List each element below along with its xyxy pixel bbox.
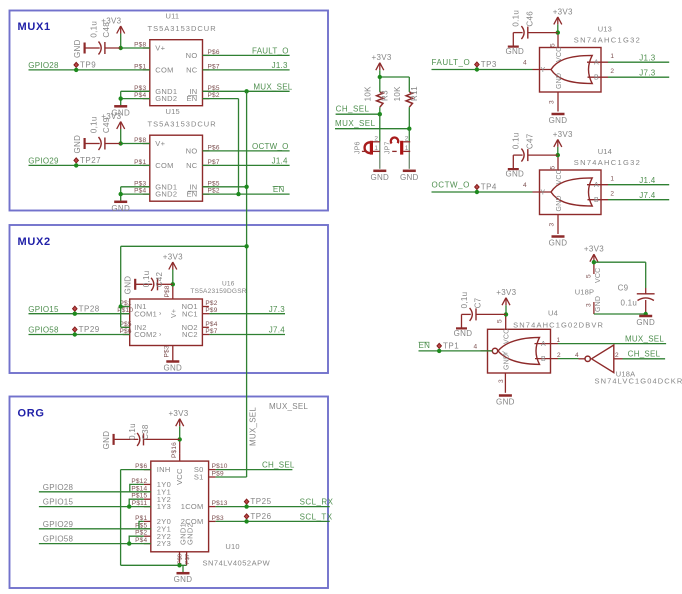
svg-text:GND: GND bbox=[505, 170, 524, 179]
wire MUX_SEL to JP7 bbox=[408, 129, 410, 142]
svg-text:0,1u: 0,1u bbox=[128, 423, 137, 440]
wire +3V3 to VCC (U4) bbox=[505, 305, 507, 315]
svg-text:FAULT_O: FAULT_O bbox=[252, 47, 289, 56]
net J1.4 wire bbox=[203, 164, 290, 166]
wire +3V3 to VCC (U14) bbox=[557, 147, 559, 156]
svg-text:3: 3 bbox=[549, 100, 556, 104]
svg-text:V+: V+ bbox=[155, 44, 165, 53]
svg-text:2: 2 bbox=[610, 68, 614, 75]
svg-text:SCL_TX: SCL_TX bbox=[300, 512, 333, 521]
net OCTW_O wire bbox=[432, 191, 533, 193]
svg-text:JP6: JP6 bbox=[354, 141, 361, 154]
svg-text:NO: NO bbox=[186, 147, 198, 156]
svg-text:MUX_SEL: MUX_SEL bbox=[625, 335, 664, 344]
IC U18P power pins bbox=[575, 262, 602, 314]
svg-text:4: 4 bbox=[523, 60, 527, 67]
svg-text:0,1u: 0,1u bbox=[142, 271, 151, 288]
testpoint TP9 bbox=[74, 61, 96, 73]
testpoint TP1 bbox=[437, 342, 459, 354]
junction VCC node (U10) bbox=[178, 437, 182, 441]
net GPIO15 wire (ORG) bbox=[39, 506, 151, 508]
svg-text:P$16: P$16 bbox=[171, 442, 178, 458]
svg-text:CH_SEL: CH_SEL bbox=[262, 460, 295, 469]
svg-text:A: A bbox=[594, 182, 599, 189]
svg-text:U11: U11 bbox=[166, 12, 180, 21]
net GPIO28 wire (ORG) bbox=[39, 491, 151, 493]
net GPIO15 wire bbox=[29, 313, 130, 315]
svg-text:GND: GND bbox=[111, 204, 130, 213]
svg-text:GND: GND bbox=[595, 296, 602, 312]
svg-text:1Y3: 1Y3 bbox=[157, 502, 171, 511]
svg-text:4: 4 bbox=[523, 182, 527, 189]
net CH_SEL wire (U18A in) bbox=[623, 358, 666, 360]
svg-text:C47: C47 bbox=[525, 133, 534, 149]
svg-text:0,1u: 0,1u bbox=[89, 21, 98, 38]
ground (U4) bbox=[496, 396, 515, 407]
pin GND (U4) bbox=[504, 373, 506, 393]
svg-text:GND: GND bbox=[370, 173, 389, 182]
junction VCC (U18P) bbox=[592, 260, 596, 264]
svg-text:V+: V+ bbox=[155, 139, 165, 148]
svg-text:R3: R3 bbox=[380, 90, 389, 101]
svg-text:MUX_SEL: MUX_SEL bbox=[335, 119, 376, 128]
wire +3V3 to V+ (U11) bbox=[120, 34, 122, 49]
svg-text:GPIO58: GPIO58 bbox=[28, 326, 59, 335]
svg-text:1: 1 bbox=[374, 145, 378, 152]
svg-text:JP7: JP7 bbox=[385, 141, 392, 154]
svg-text:B: B bbox=[541, 356, 546, 363]
svg-text:J7.3: J7.3 bbox=[269, 305, 285, 314]
supply +3V3 (U4) bbox=[496, 288, 516, 305]
pin B (U14) bbox=[588, 199, 609, 201]
wire R3 to CH_SEL bbox=[379, 82, 381, 92]
svg-text:+3V3: +3V3 bbox=[163, 253, 183, 262]
net J7.4 wire bbox=[608, 199, 669, 201]
svg-text:B: B bbox=[594, 75, 599, 82]
svg-text:U4: U4 bbox=[548, 309, 558, 318]
svg-text:GND: GND bbox=[556, 195, 563, 211]
svg-text:1COM: 1COM bbox=[181, 502, 204, 511]
svg-text:0.1u: 0.1u bbox=[621, 299, 638, 308]
svg-text:0.1u: 0.1u bbox=[512, 132, 521, 149]
svg-text:NO: NO bbox=[186, 51, 198, 60]
svg-text:5: 5 bbox=[586, 274, 593, 278]
pin VCC (U4) bbox=[505, 315, 507, 330]
svg-text:SN74LVC1G04DCKR: SN74LVC1G04DCKR bbox=[595, 377, 682, 386]
net MUX_SEL wire (U4 out) bbox=[558, 343, 666, 345]
pin B (U4) bbox=[535, 358, 558, 360]
net GPIO58 wire (ORG) bbox=[39, 543, 151, 545]
svg-text:+3V3: +3V3 bbox=[553, 7, 573, 16]
svg-text:TP4: TP4 bbox=[481, 183, 497, 192]
svg-text:GND: GND bbox=[174, 575, 193, 584]
svg-text:GPIO29: GPIO29 bbox=[43, 520, 74, 529]
junction MUX_SEL at U15 bbox=[244, 185, 248, 189]
testpoint TP25 bbox=[244, 497, 271, 509]
svg-text:›: › bbox=[159, 331, 162, 338]
svg-text:SN74AHC1G32: SN74AHC1G32 bbox=[574, 36, 641, 45]
svg-text:0,1u: 0,1u bbox=[460, 292, 469, 309]
junction CH_SEL/R3 bbox=[378, 112, 382, 116]
svg-text:GND: GND bbox=[102, 431, 111, 450]
junction R3 top bbox=[378, 75, 382, 79]
svg-text:›: › bbox=[159, 311, 162, 318]
testpoint TP4 bbox=[475, 183, 497, 195]
svg-text:3: 3 bbox=[498, 379, 505, 383]
ground (JP7) bbox=[400, 171, 419, 182]
svg-text:TP25: TP25 bbox=[250, 497, 271, 506]
pin VCC (U13) bbox=[557, 33, 559, 47]
ground (JP6) bbox=[370, 171, 389, 182]
net FAULT_O wire bbox=[432, 69, 533, 71]
junction V+ node (U15) bbox=[119, 141, 123, 145]
svg-text:MUX_SEL: MUX_SEL bbox=[249, 407, 258, 446]
wire R11 to MUX_SEL bbox=[408, 82, 410, 92]
svg-text:J7.4: J7.4 bbox=[269, 326, 285, 335]
svg-text:COM2: COM2 bbox=[134, 330, 157, 339]
OR gate shape (U14) bbox=[551, 178, 592, 206]
svg-text:TS5A23159DGSR: TS5A23159DGSR bbox=[190, 288, 246, 295]
svg-text:GND: GND bbox=[556, 73, 563, 89]
wire CH_SEL to JP6 bbox=[379, 114, 381, 142]
svg-text:U10: U10 bbox=[225, 542, 239, 551]
svg-text:MUX_SEL: MUX_SEL bbox=[253, 83, 292, 92]
wire net MUX_SEL vertical bbox=[246, 91, 248, 477]
svg-text:J7.3: J7.3 bbox=[639, 68, 655, 77]
wire +3V3 to R3/R11 bbox=[379, 70, 381, 81]
wire +3V3 to V+ (U15) bbox=[120, 129, 122, 144]
svg-text:P$7: P$7 bbox=[185, 554, 191, 564]
junction GND pins (U15) bbox=[119, 192, 123, 196]
IC U16 body bbox=[117, 281, 247, 358]
junction GPIO58/2Y3 bbox=[127, 541, 131, 545]
net FAULT_O wire bbox=[203, 54, 290, 56]
junction V+ node (U16) bbox=[171, 282, 175, 286]
svg-text:C48: C48 bbox=[102, 22, 111, 38]
junction GPIO15/1Y3 bbox=[127, 504, 131, 508]
svg-text:2Y3: 2Y3 bbox=[157, 539, 171, 548]
pin GND (U14) bbox=[557, 215, 559, 235]
capacitor C9 bbox=[618, 283, 655, 314]
svg-text:ORG: ORG bbox=[18, 407, 45, 419]
net SCL_TX wire bbox=[216, 520, 330, 522]
frame MUX2 bbox=[10, 225, 329, 373]
svg-text:+3V3: +3V3 bbox=[168, 409, 188, 418]
svg-text:U18P: U18P bbox=[575, 288, 595, 297]
svg-text:A: A bbox=[541, 341, 546, 348]
svg-text:R11: R11 bbox=[410, 86, 419, 101]
wire U16 GND pin bbox=[172, 354, 174, 362]
junction V+ node (U11) bbox=[119, 46, 123, 50]
svg-text:U14: U14 bbox=[598, 147, 612, 156]
svg-text:GND: GND bbox=[549, 116, 568, 125]
junction VCC node (U4) bbox=[504, 312, 508, 316]
svg-text:+3V3: +3V3 bbox=[584, 245, 604, 254]
capacitor C48 bbox=[73, 21, 121, 58]
svg-text:C49: C49 bbox=[102, 117, 111, 133]
wire INH to GND (U10) bbox=[121, 469, 151, 471]
net CH_SEL wire (S0) bbox=[216, 469, 293, 471]
ground (U14) bbox=[549, 237, 568, 248]
svg-text:C38: C38 bbox=[141, 424, 150, 440]
junction MUX_SEL at U11 bbox=[244, 89, 248, 93]
jumper JP6 bbox=[354, 135, 380, 154]
testpoint TP27 bbox=[74, 156, 101, 168]
svg-text:GND: GND bbox=[163, 364, 182, 373]
svg-text:TP26: TP26 bbox=[250, 512, 271, 521]
svg-text:GPIO58: GPIO58 bbox=[43, 535, 74, 544]
capacitor C46 bbox=[505, 10, 557, 56]
supply +3V3 (U15) bbox=[101, 112, 124, 129]
svg-text:TP1: TP1 bbox=[443, 342, 459, 351]
svg-text:CH_SEL: CH_SEL bbox=[628, 350, 661, 359]
pin VCC (U14) bbox=[557, 156, 559, 170]
testpoint TP26 bbox=[244, 512, 271, 524]
output bubble (U4) bbox=[492, 348, 497, 353]
svg-text:P$4: P$4 bbox=[205, 321, 217, 328]
jumper JP7 bbox=[385, 135, 411, 154]
supply +3V3 (U10) bbox=[168, 409, 188, 426]
wire MUX_SEL to S1 bbox=[216, 476, 247, 478]
svg-text:SN74LV4052APW: SN74LV4052APW bbox=[203, 559, 271, 568]
ground (U11) bbox=[111, 106, 130, 117]
IC U11 body bbox=[134, 12, 220, 106]
pin Y (U14) bbox=[533, 191, 552, 193]
net J1.3 wire bbox=[608, 61, 669, 63]
wire net EN (U15 EN) bbox=[203, 193, 290, 195]
svg-text:GND: GND bbox=[400, 173, 419, 182]
capacitor C42 bbox=[124, 271, 173, 295]
pin GND (U13) bbox=[557, 92, 559, 112]
junction EN at U15 bbox=[236, 192, 240, 196]
net J7.4 wire bbox=[209, 334, 285, 336]
svg-text:Y: Y bbox=[540, 67, 545, 74]
junction GND pins (U11) bbox=[119, 96, 123, 100]
svg-text:OCTW_O: OCTW_O bbox=[432, 180, 470, 189]
junction IN1 (U16) bbox=[119, 304, 123, 308]
svg-text:TP28: TP28 bbox=[79, 304, 100, 313]
svg-text:GND2: GND2 bbox=[186, 523, 195, 545]
wire +3V3 to VCC (U10) bbox=[179, 426, 181, 441]
svg-text:SN74AHC1G02DBVR: SN74AHC1G02DBVR bbox=[513, 320, 604, 329]
ground (U16) bbox=[163, 362, 182, 373]
svg-text:GPIO15: GPIO15 bbox=[28, 305, 59, 314]
svg-text:5: 5 bbox=[550, 43, 557, 47]
IC U4 body bbox=[488, 309, 605, 374]
svg-text:J7.4: J7.4 bbox=[639, 191, 655, 200]
svg-text:VCC: VCC bbox=[556, 169, 563, 184]
wire net EN (U11 EN down) bbox=[203, 98, 239, 100]
supply +3V3 (U14) bbox=[553, 130, 573, 147]
IC U15 body bbox=[134, 107, 220, 201]
junction MUX_SEL top wire bbox=[244, 244, 248, 248]
IC U18A inverter bbox=[575, 345, 682, 386]
frame MUX1 bbox=[10, 11, 329, 211]
svg-text:MUX_SEL: MUX_SEL bbox=[269, 402, 308, 411]
svg-text:VCC: VCC bbox=[175, 468, 184, 485]
wire +3V3 to VCC (U13) bbox=[557, 24, 559, 33]
svg-text:2: 2 bbox=[615, 352, 619, 359]
svg-text:MUX1: MUX1 bbox=[18, 21, 51, 33]
svg-text:GPIO28: GPIO28 bbox=[43, 483, 74, 492]
ground (U15) bbox=[111, 202, 130, 213]
svg-text:J1.3: J1.3 bbox=[639, 53, 655, 62]
supply +3V3 (U11) bbox=[101, 17, 124, 34]
svg-text:GND: GND bbox=[504, 354, 511, 370]
supply +3V3 (U16) bbox=[163, 253, 183, 270]
svg-text:P$8: P$8 bbox=[178, 554, 184, 564]
net J1.3 wire bbox=[203, 69, 290, 71]
svg-text:COM: COM bbox=[155, 161, 173, 170]
svg-text:FAULT_O: FAULT_O bbox=[432, 58, 471, 67]
svg-text:GPIO15: GPIO15 bbox=[43, 498, 74, 507]
testpoint TP3 bbox=[475, 60, 497, 72]
svg-text:B: B bbox=[594, 197, 599, 204]
svg-text:GND: GND bbox=[549, 239, 568, 248]
svg-text:0,1u: 0,1u bbox=[89, 116, 98, 133]
svg-text:C46: C46 bbox=[525, 11, 534, 27]
junction MUX_SEL/R11 bbox=[407, 127, 411, 131]
IC U14 body bbox=[540, 147, 642, 215]
wire VCC loop to C9 bbox=[594, 261, 646, 263]
wire +3V3 (U18P) bbox=[593, 261, 595, 262]
svg-text:GND: GND bbox=[73, 135, 82, 154]
svg-text:2: 2 bbox=[374, 135, 378, 142]
svg-text:3: 3 bbox=[549, 222, 556, 226]
svg-text:J1.4: J1.4 bbox=[639, 176, 655, 185]
net EN wire (U4) bbox=[419, 350, 493, 352]
svg-text:SN74AHC1G32: SN74AHC1G32 bbox=[574, 158, 641, 167]
junction GND1 pin (U10) bbox=[177, 563, 181, 567]
svg-text:5: 5 bbox=[550, 166, 557, 170]
svg-text:CH_SEL: CH_SEL bbox=[336, 105, 370, 114]
net OCTW_O wire bbox=[203, 150, 290, 152]
supply +3V3 (R3/R11) bbox=[372, 53, 392, 70]
svg-text:COM: COM bbox=[155, 66, 173, 75]
net GPIO29 wire bbox=[29, 164, 150, 166]
svg-text:GND: GND bbox=[124, 276, 133, 295]
wire GND1/GND2 (U15) bbox=[121, 186, 150, 188]
svg-text:INH: INH bbox=[157, 465, 171, 474]
svg-text:U15: U15 bbox=[166, 107, 180, 116]
wire +3V3 to U16 V+ bbox=[172, 270, 174, 287]
svg-text:+3V3: +3V3 bbox=[372, 53, 392, 62]
svg-text:VCC: VCC bbox=[556, 47, 563, 62]
pin Y (U13) bbox=[533, 69, 552, 71]
svg-text:P$3: P$3 bbox=[164, 345, 171, 357]
svg-text:2: 2 bbox=[405, 135, 409, 142]
ground (U10) bbox=[174, 573, 193, 584]
capacitor C49 bbox=[73, 116, 121, 153]
svg-text:3: 3 bbox=[586, 303, 593, 307]
resistor R11 10K bbox=[393, 86, 419, 107]
svg-text:P$2: P$2 bbox=[205, 300, 217, 307]
svg-text:NC1: NC1 bbox=[182, 309, 198, 318]
wire net MUX_SEL (U15 IN) bbox=[203, 186, 247, 188]
svg-text:+3V3: +3V3 bbox=[553, 130, 573, 139]
NOR gate shape (U4) bbox=[498, 337, 540, 364]
svg-text:C9: C9 bbox=[618, 283, 629, 292]
capacitor C7 bbox=[454, 292, 506, 338]
svg-text:1: 1 bbox=[405, 145, 409, 152]
pin A (U4) bbox=[535, 343, 559, 345]
capacitor C38 bbox=[102, 423, 180, 449]
net CH_SEL wire (pullup) bbox=[336, 113, 380, 115]
svg-text:NC: NC bbox=[186, 66, 198, 75]
wire U4.B to U18A out bbox=[558, 358, 579, 360]
svg-text:1: 1 bbox=[610, 53, 614, 60]
svg-text:+3V3: +3V3 bbox=[496, 288, 516, 297]
supply +3V3 (U13) bbox=[553, 7, 573, 24]
frame ORG bbox=[10, 397, 329, 589]
pin Y (U4) bbox=[481, 350, 493, 352]
svg-text:U13: U13 bbox=[598, 25, 612, 34]
net J7.3 wire bbox=[209, 313, 285, 315]
svg-text:J1.4: J1.4 bbox=[272, 157, 288, 166]
svg-text:V+: V+ bbox=[171, 309, 178, 318]
svg-text:VCC: VCC bbox=[504, 329, 511, 344]
svg-text:J1.3: J1.3 bbox=[272, 61, 288, 70]
svg-text:Y: Y bbox=[540, 189, 545, 196]
svg-text:TS5A3153DCUR: TS5A3153DCUR bbox=[148, 120, 217, 129]
svg-text:A: A bbox=[594, 60, 599, 67]
svg-text:P$8: P$8 bbox=[164, 285, 171, 297]
svg-text:C42: C42 bbox=[155, 271, 164, 287]
svg-text:VCC: VCC bbox=[595, 268, 602, 283]
junction GND (U18P/C9) bbox=[644, 312, 648, 316]
junction VCC node (U14) bbox=[556, 153, 560, 157]
wire GND loop (U18P) bbox=[594, 313, 646, 315]
svg-text:GND: GND bbox=[73, 39, 82, 58]
svg-text:2: 2 bbox=[557, 352, 561, 359]
svg-text:TP27: TP27 bbox=[80, 156, 101, 165]
wire net MUX_SEL (U11 IN) bbox=[203, 90, 290, 92]
svg-text:5: 5 bbox=[497, 319, 504, 323]
net GPIO58 wire bbox=[29, 334, 130, 336]
svg-text:2: 2 bbox=[610, 191, 614, 198]
net MUX_SEL wire (pullup) bbox=[335, 128, 409, 130]
pin B (U13) bbox=[588, 76, 609, 78]
IC U10 body bbox=[131, 442, 270, 568]
resistor R3 10K bbox=[364, 86, 390, 107]
net SCL_RX wire bbox=[216, 506, 330, 508]
svg-text:TP3: TP3 bbox=[481, 60, 497, 69]
pin A (U14) bbox=[587, 184, 608, 186]
svg-text:GND2: GND2 bbox=[155, 190, 177, 199]
testpoint TP29 bbox=[73, 325, 100, 337]
svg-text:SCL_RX: SCL_RX bbox=[300, 498, 334, 507]
svg-text:C7: C7 bbox=[474, 297, 483, 308]
junction VCC node (U13) bbox=[556, 30, 560, 34]
svg-text:1: 1 bbox=[610, 176, 614, 183]
svg-text:U16: U16 bbox=[222, 281, 235, 288]
svg-text:GND: GND bbox=[636, 318, 655, 327]
svg-text:GND: GND bbox=[454, 329, 473, 338]
net J7.3 wire bbox=[608, 76, 669, 78]
svg-text:COM1: COM1 bbox=[134, 309, 157, 318]
svg-text:TS5A3153DCUR: TS5A3153DCUR bbox=[148, 24, 217, 33]
ground (U13) bbox=[549, 114, 568, 125]
svg-text:4: 4 bbox=[473, 344, 477, 351]
svg-text:NC2: NC2 bbox=[182, 330, 198, 339]
pin A (U13) bbox=[587, 61, 608, 63]
svg-text:S1: S1 bbox=[194, 473, 204, 482]
svg-text:NC: NC bbox=[186, 161, 198, 170]
svg-text:10K: 10K bbox=[393, 86, 402, 101]
testpoint TP28 bbox=[73, 304, 100, 316]
svg-text:GPIO29: GPIO29 bbox=[28, 157, 59, 166]
svg-text:0.1u: 0.1u bbox=[512, 10, 521, 27]
